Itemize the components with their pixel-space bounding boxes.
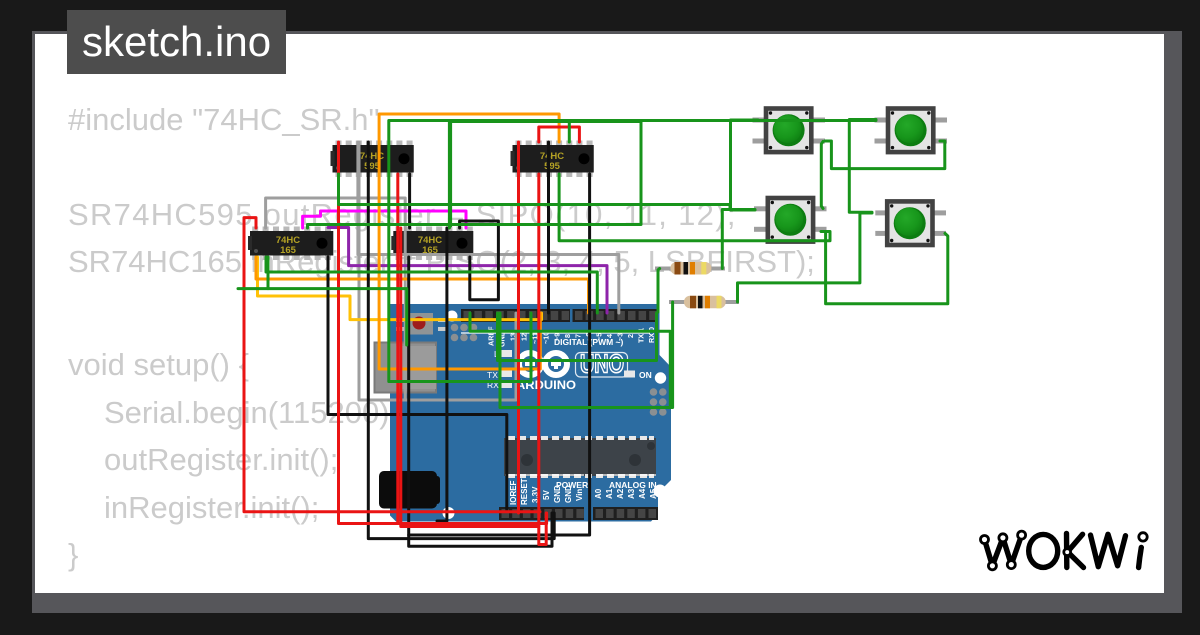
svg-text:~5: ~5 [595,333,604,341]
svg-text:2: 2 [626,334,635,338]
svg-text:12: 12 [520,333,529,341]
svg-text:A0: A0 [594,488,603,499]
svg-text:4: 4 [605,334,614,338]
svg-text:~9: ~9 [553,333,562,341]
svg-text:RESET: RESET [520,478,529,505]
svg-text:~10: ~10 [542,332,551,344]
svg-text:POWER: POWER [556,480,588,490]
svg-text:IOREF: IOREF [509,480,518,505]
svg-text:5V: 5V [542,490,551,500]
svg-text:165: 165 [280,245,297,256]
svg-text:595: 595 [544,161,561,172]
svg-text:TX: TX [487,370,498,380]
svg-text:~3: ~3 [616,333,625,341]
svg-text:ON: ON [639,370,652,380]
svg-text:AREF: AREF [487,326,496,346]
svg-text:Vin: Vin [575,489,584,501]
svg-text:RX 0: RX 0 [647,327,656,343]
svg-text:7: 7 [574,334,583,338]
svg-text:UNO: UNO [580,349,624,379]
svg-text:ANALOG IN: ANALOG IN [609,480,657,490]
svg-text:8: 8 [563,334,572,338]
